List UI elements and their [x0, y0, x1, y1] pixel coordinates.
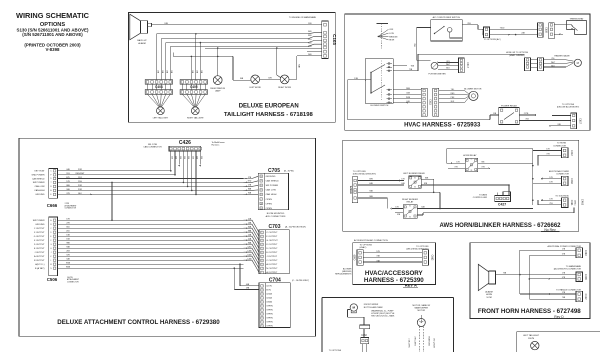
svg-text:2: 2 [262, 236, 263, 238]
svg-text:02 IN: 02 IN [266, 286, 272, 288]
svg-text:85: 85 [471, 158, 473, 160]
svg-text:KEY 'RUN': KEY 'RUN' [35, 171, 46, 173]
svg-text:F OUTPUT: F OUTPUT [266, 236, 278, 238]
svg-text:BOTTLE AND TANK: BOTTLE AND TANK [364, 306, 383, 309]
svg-text:J OUTPUT: J OUTPUT [34, 252, 45, 254]
svg-text:L: L [51, 260, 52, 262]
svg-text:B: B [261, 294, 262, 296]
svg-text:ORL: ORL [446, 61, 450, 63]
svg-text:GROUND: GROUND [35, 224, 45, 226]
svg-text:G OUTPUT: G OUTPUT [266, 240, 278, 242]
svg-text:C460: C460 [570, 178, 573, 184]
svg-text:27B w BY3: 27B w BY3 [414, 336, 416, 345]
svg-text:85: 85 [409, 205, 411, 207]
svg-text:OPEN: OPEN [266, 310, 273, 312]
svg-text:86: 86 [409, 216, 411, 218]
svg-text:GROUND: GROUND [266, 176, 276, 178]
svg-text:B: B [261, 208, 262, 210]
svg-text:HIGH: HIGH [389, 40, 395, 42]
svg-text:Harness: Harness [212, 144, 220, 147]
svg-text:D OUTPUT: D OUTPUT [34, 244, 45, 246]
svg-text:(HVAC): (HVAC) [360, 246, 367, 249]
svg-text:TO OPTIONS: TO OPTIONS [416, 246, 429, 248]
svg-text:RIGHT TAILLIGHT: RIGHT TAILLIGHT [187, 117, 204, 120]
svg-text:7: 7 [262, 256, 263, 258]
svg-text:E OUTPUT: E OUTPUT [266, 252, 278, 254]
svg-text:CONNECTOR: CONNECTOR [65, 208, 77, 210]
svg-text:K OUTPUT: K OUTPUT [266, 244, 278, 246]
svg-text:LAMP: LAMP [215, 90, 221, 93]
svg-text:THERMOSTAT: THERMOSTAT [569, 17, 584, 20]
svg-text:C617: C617 [579, 118, 582, 124]
svg-text:C461: C461 [570, 200, 573, 206]
svg-text:03 A6: 03 A6 [266, 301, 272, 304]
svg-text:BLOWER MOTOR: BLOWER MOTOR [464, 89, 482, 91]
svg-text:(DELUXE ACCESSORY): (DELUXE ACCESSORY) [406, 248, 429, 251]
svg-text:OPEN: OPEN [266, 326, 273, 328]
svg-text:MOTOR, VANE W/: MOTOR, VANE W/ [413, 304, 431, 307]
svg-text:Z (B w BY): Z (B w BY) [408, 338, 410, 348]
svg-text:C OUTPUT: C OUTPUT [34, 228, 45, 230]
svg-text:C662: C662 [430, 255, 433, 261]
svg-text:E: E [261, 306, 262, 308]
svg-text:BLOWER SWITCH: BLOWER SWITCH [371, 105, 389, 107]
svg-text:5/62: 5/62 [248, 247, 252, 249]
svg-text:YEL: YEL [451, 89, 454, 91]
svg-text:T: T [50, 182, 51, 184]
svg-text:PUR: PUR [78, 169, 83, 171]
svg-text:(B - 8-PIN): (B - 8-PIN) [284, 170, 294, 172]
svg-text:HORN: HORN [486, 294, 493, 296]
svg-text:C630: C630 [545, 27, 548, 33]
svg-text:D OUTPUT: D OUTPUT [266, 248, 278, 250]
svg-text:OPEN: OPEN [266, 306, 273, 308]
svg-text:P0G: P0G [78, 181, 82, 183]
svg-text:TO OPTIONS: TO OPTIONS [353, 171, 366, 173]
svg-text:C405: C405 [190, 85, 198, 89]
svg-text:POTENTIOMETER: POTENTIOMETER [428, 73, 446, 75]
svg-text:86: 86 [414, 187, 416, 189]
svg-text:(C - 16-PIN GREY): (C - 16-PIN GREY) [292, 280, 309, 282]
svg-text:C506: C506 [47, 277, 58, 282]
svg-text:TO OPTIONS (AC): TO OPTIONS (AC) [484, 38, 501, 41]
svg-text:G OUTPUT: G OUTPUT [34, 236, 45, 238]
svg-text:SW POWER: SW POWER [266, 185, 279, 187]
svg-text:ACCESSORY/HVAC CONNECTION: ACCESSORY/HVAC CONNECTION [354, 239, 388, 242]
svg-text:F: F [261, 181, 262, 183]
svg-text:TO ENGINE OR MAINFRAME: TO ENGINE OR MAINFRAME [289, 16, 317, 19]
svg-text:F: F [50, 240, 51, 242]
svg-text:9: 9 [262, 264, 263, 266]
svg-text:To MultiFrame: To MultiFrame [212, 141, 226, 144]
svg-text:V-8398: V-8398 [46, 47, 60, 52]
svg-text:HORN RELAY: HORN RELAY [463, 154, 477, 157]
svg-text:TO MAINFRAME: TO MAINFRAME [566, 265, 582, 268]
svg-text:PUR: PUR [78, 185, 83, 187]
svg-text:85: 85 [414, 177, 416, 179]
svg-text:FRONT WIPER: FRONT WIPER [364, 304, 379, 306]
svg-text:TO AWS: TO AWS [479, 193, 488, 196]
svg-text:91G: 91G [308, 39, 312, 41]
svg-text:RIGHT WORK: RIGHT WORK [278, 87, 292, 89]
svg-text:LEFT WORK: LEFT WORK [249, 87, 261, 89]
svg-text:C432: C432 [361, 335, 367, 337]
svg-text:No Rev: No Rev [544, 228, 556, 232]
svg-text:PUR: PUR [78, 189, 83, 191]
svg-text:FRONT HORN HARNESS - 6727498: FRONT HORN HARNESS - 6727498 [478, 308, 581, 315]
svg-text:LEFT BLINKER RELAY: LEFT BLINKER RELAY [403, 172, 425, 175]
svg-text:C609: C609 [353, 254, 356, 260]
svg-text:SW POWER: SW POWER [33, 220, 45, 222]
svg-text:C460: C460 [584, 250, 587, 256]
svg-text:C613: C613 [466, 62, 468, 68]
svg-text:YEL: YEL [551, 58, 554, 60]
svg-text:(A - 16-PIN DEUTSCH): (A - 16-PIN DEUTSCH) [285, 226, 306, 229]
svg-text:A OUTPUT: A OUTPUT [266, 271, 278, 274]
svg-text:C610: C610 [481, 30, 484, 36]
svg-text:TAILLIGHT HARNESS - 6718198: TAILLIGHT HARNESS - 6718198 [224, 112, 314, 118]
svg-text:LOW: LOW [389, 33, 394, 35]
svg-text:5: 5 [262, 248, 263, 250]
svg-text:DELUXE EUROPEAN: DELUXE EUROPEAN [239, 104, 299, 110]
svg-text:REGISTRATION: REGISTRATION [210, 87, 225, 90]
svg-text:HOSE GR TO OPTIONS: HOSE GR TO OPTIONS [506, 52, 529, 54]
svg-text:C413: C413 [349, 186, 353, 194]
svg-text:02 A4: 02 A4 [266, 297, 272, 300]
svg-text:W1B: W1B [66, 263, 71, 265]
svg-text:ADDITIONAL POWER: ADDITIONAL POWER [549, 170, 570, 173]
svg-text:OPEN: OPEN [266, 314, 273, 316]
svg-text:GROUND: GROUND [35, 194, 45, 196]
svg-text:C611: C611 [429, 99, 432, 105]
svg-text:W2 w BCH: W2 w BCH [433, 338, 435, 348]
svg-text:CAN SHIELD: CAN SHIELD [266, 180, 280, 183]
svg-text:B: B [261, 176, 262, 178]
svg-text:CONNECTOR: CONNECTOR [553, 145, 566, 147]
svg-text:(S/N 526711001 AND ABOVE): (S/N 526711001 AND ABOVE) [22, 32, 83, 37]
svg-text:N OUTPUT: N OUTPUT [266, 268, 278, 270]
svg-text:TO OPTIONS: TO OPTIONS [360, 244, 373, 246]
svg-text:B: B [261, 190, 262, 192]
svg-text:CAN-LOW: CAN-LOW [35, 185, 45, 188]
svg-text:E: E [261, 185, 262, 187]
svg-text:AWS HORN/BLINKER HARNESS - 672: AWS HORN/BLINKER HARNESS - 6726662 [439, 223, 561, 229]
svg-text:A OUTPUT: A OUTPUT [266, 263, 278, 266]
svg-text:ALARM: ALARM [485, 291, 492, 294]
svg-text:CONTROLLER: CONTROLLER [473, 197, 488, 199]
svg-text:C461a: C461a [573, 200, 575, 207]
svg-text:C OUTPUT: C OUTPUT [266, 232, 278, 234]
svg-text:C463: C463 [581, 199, 585, 206]
svg-text:HVAC/ACCESSORY: HVAC/ACCESSORY [365, 270, 424, 277]
svg-text:SW POWER: SW POWER [33, 182, 45, 184]
svg-text:Y04/WCH3: Y04/WCH3 [428, 336, 430, 345]
svg-text:CONNECTOR: CONNECTOR [556, 174, 569, 176]
svg-text:RED/WHT: RED/WHT [76, 173, 86, 175]
svg-text:C412: C412 [570, 150, 573, 156]
svg-text:4: 4 [262, 244, 263, 246]
svg-text:1: 1 [262, 232, 263, 234]
svg-text:107M: 107M [486, 297, 491, 299]
svg-text:A OUTPUT: A OUTPUT [34, 255, 45, 258]
svg-text:T61D: T61D [500, 27, 505, 29]
svg-text:CAN CONNECTOR: CAN CONNECTOR [143, 146, 162, 149]
svg-text:A/C CONDITIONER SWITCH: A/C CONDITIONER SWITCH [433, 16, 461, 19]
svg-text:OPEN: OPEN [266, 208, 273, 210]
svg-text:B (A TA P): B (A TA P) [35, 267, 45, 270]
svg-text:MIL 170B: MIL 170B [148, 144, 157, 146]
svg-text:BACK-UP: BACK-UP [137, 39, 147, 42]
svg-text:(ACCESSORY) CONNECTOR: (ACCESSORY) CONNECTOR [554, 268, 582, 271]
svg-text:OPEN: OPEN [266, 199, 273, 201]
svg-text:OPEN: OPEN [266, 203, 273, 205]
svg-text:H(B TO L): H(B TO L) [35, 264, 45, 266]
svg-text:OPEN: OPEN [266, 322, 273, 324]
svg-text:CONNECTOR: CONNECTOR [67, 281, 79, 283]
svg-text:MEDIUM: MEDIUM [389, 36, 397, 38]
svg-text:1107M: 1107M [528, 338, 534, 340]
svg-text:REV A: REV A [405, 282, 417, 287]
svg-text:N OUTPUT: N OUTPUT [34, 260, 45, 262]
svg-text:02 A3: 02 A3 [266, 293, 272, 296]
svg-text:C666: C666 [47, 203, 58, 208]
svg-text:C427: C427 [498, 202, 506, 206]
svg-text:L: L [262, 272, 263, 274]
svg-text:J OUTPUT: J OUTPUT [266, 256, 277, 258]
svg-text:C OUTPUT: C OUTPUT [266, 260, 278, 262]
svg-text:CAN SHIELD: CAN SHIELD [32, 177, 45, 180]
svg-text:REV. (BOLT-ECS) - TANK: REV. (BOLT-ECS) - TANK [371, 314, 395, 317]
svg-text:C103: C103 [332, 34, 337, 45]
svg-text:F: F [262, 310, 263, 312]
svg-text:WIRING SCHEMATIC: WIRING SCHEMATIC [16, 11, 90, 20]
svg-text:(DELUXE ACCESSORY): (DELUXE ACCESSORY) [353, 173, 376, 176]
svg-text:(HVAC JUMPER): (HVAC JUMPER) [509, 54, 525, 57]
svg-text:TO HORN: TO HORN [557, 143, 567, 145]
svg-text:CAN LOW: CAN LOW [266, 189, 277, 192]
svg-text:HVAC HARNESS - 6725933: HVAC HARNESS - 6725933 [404, 122, 481, 128]
svg-text:REPLACEMENTS: REPLACEMENTS [335, 273, 352, 276]
svg-text:3: 3 [262, 240, 263, 242]
svg-text:K OUTPUT: K OUTPUT [34, 240, 45, 242]
svg-text:CAN HIGH: CAN HIGH [266, 193, 277, 196]
svg-text:(DELUXE ACCESSORY): (DELUXE ACCESSORY) [557, 106, 580, 109]
svg-text:C404: C404 [155, 85, 163, 89]
svg-text:C412: C412 [584, 294, 587, 300]
svg-text:C705: C705 [268, 168, 280, 174]
svg-text:C703: C703 [269, 224, 281, 230]
svg-text:E OUTPUT: E OUTPUT [34, 248, 45, 250]
svg-text:OPEN: OPEN [266, 318, 273, 320]
svg-text:F OUTPUT: F OUTPUT [34, 232, 45, 234]
svg-text:W2B: W2B [66, 267, 71, 269]
svg-text:CAN-HIGH: CAN-HIGH [34, 189, 45, 192]
svg-text:B IN: B IN [266, 290, 271, 292]
svg-text:F: F [50, 175, 51, 177]
svg-text:C408: C408 [584, 274, 587, 280]
svg-text:BOOM MOUNTED: BOOM MOUNTED [267, 213, 285, 215]
svg-text:TO OPTIONS: TO OPTIONS [562, 104, 575, 106]
svg-text:86: 86 [471, 170, 473, 172]
svg-text:ALARM: ALARM [138, 42, 145, 45]
svg-text:C704: C704 [269, 277, 281, 283]
svg-text:C426: C426 [179, 140, 191, 146]
svg-text:DELUXE ATTACHMENT CONTROL HARN: DELUXE ATTACHMENT CONTROL HARNESS - 6729… [57, 319, 220, 326]
svg-text:21TB: 21TB [524, 113, 529, 115]
svg-text:LEFT TAILLIGHT: LEFT TAILLIGHT [523, 334, 540, 337]
svg-text:TO HANDLE CONNECTOR: TO HANDLE CONNECTOR [556, 288, 581, 291]
svg-text:WASH WIPER: WASH WIPER [415, 307, 429, 310]
svg-text:RELAY: RELAY [407, 200, 414, 203]
svg-text:GND POWER: GND POWER [31, 175, 45, 177]
svg-text:HEATER VALVE: HEATER VALVE [554, 55, 570, 58]
svg-text:8: 8 [262, 260, 263, 262]
svg-text:LEFT TAILLIGHT: LEFT TAILLIGHT [153, 117, 169, 120]
svg-text:W1B: W1B [406, 97, 411, 99]
svg-text:POWER RELAY: POWER RELAY [501, 104, 517, 107]
svg-text:6: 6 [262, 252, 263, 254]
svg-text:PLR: PLR [78, 177, 82, 179]
svg-text:ACD CONNECTORS: ACD CONNECTORS [266, 215, 286, 218]
svg-text:MOTOR: MOTOR [417, 310, 425, 312]
